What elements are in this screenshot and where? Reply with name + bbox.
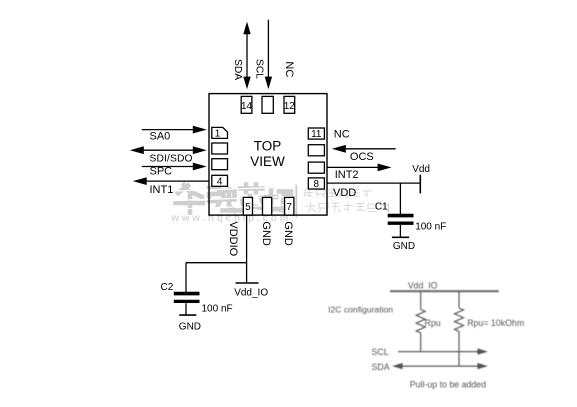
svg-text:OCS: OCS xyxy=(350,151,374,163)
U1 pin 13 (box) xyxy=(262,96,273,113)
svg-text:I2C configuration: I2C configuration xyxy=(328,305,393,315)
svg-text:SDI/SDO: SDI/SDO xyxy=(150,154,193,165)
svg-text:100 nF: 100 nF xyxy=(415,222,446,233)
wire OCS (arrow into pin 10) xyxy=(332,145,396,153)
svg-text:7: 7 xyxy=(286,202,292,213)
U1 pin 2 (box) xyxy=(212,143,228,154)
svg-text:GND: GND xyxy=(393,241,415,252)
svg-text:8: 8 xyxy=(314,179,320,190)
svg-text:100 nF: 100 nF xyxy=(202,304,233,315)
svg-text:VDD: VDD xyxy=(333,187,356,199)
net label Vdd_IO xyxy=(234,287,268,298)
net label VDD xyxy=(333,187,356,199)
svg-text:GND: GND xyxy=(282,221,294,246)
U1 pin 5 (box + number) xyxy=(243,197,252,215)
net label SCL xyxy=(254,59,265,79)
svg-text:SDA: SDA xyxy=(372,362,390,372)
C1 reference label xyxy=(375,201,388,212)
U1 pin 1 (box with chamfer + number) xyxy=(212,127,228,139)
wire SCL (arrow into pin 13) xyxy=(265,20,272,90)
C2 reference label xyxy=(161,282,174,293)
ground (C2) xyxy=(179,315,201,333)
svg-text:14: 14 xyxy=(241,101,253,112)
wire SA0 (arrow into pin 1) xyxy=(142,126,207,134)
net label Vdd xyxy=(412,164,430,175)
svg-text:SPC: SPC xyxy=(150,166,173,178)
svg-text:TOP: TOP xyxy=(254,139,282,154)
net label GND (pin 6, rotated) xyxy=(260,221,272,246)
U1 label TOP VIEW xyxy=(250,139,285,169)
svg-text:INT2: INT2 xyxy=(335,169,359,181)
svg-text:Vdd_IO: Vdd_IO xyxy=(234,287,268,298)
svg-text:Rpu: Rpu xyxy=(425,318,441,328)
net label NC (pin 12) xyxy=(283,61,295,77)
svg-text:SA0: SA0 xyxy=(150,131,171,143)
svg-text:INT1: INT1 xyxy=(150,184,174,196)
net label SDI/SDO xyxy=(150,154,193,165)
U1 pin 12 (box + number) xyxy=(284,96,296,113)
U1 pin 6 (box) xyxy=(263,197,272,215)
net label INT2 xyxy=(335,169,359,181)
svg-text:VDDIO: VDDIO xyxy=(227,221,239,256)
svg-text:4: 4 xyxy=(217,176,223,187)
net label OCS xyxy=(350,151,374,163)
U1 pin 3 (box) xyxy=(212,159,228,170)
wire C2 branch (horizontal + vertical) xyxy=(186,263,247,292)
U1 pin 4 (box + number) xyxy=(212,175,228,187)
svg-text:1: 1 xyxy=(215,129,221,140)
svg-text:Pull-up to be added: Pull-up to be added xyxy=(410,379,486,389)
U1 pin 8 (box + number) xyxy=(308,178,324,190)
wire INT2 (arrow out of pin 9) xyxy=(327,164,392,172)
svg-text:SCL: SCL xyxy=(254,59,265,79)
ground (C1) xyxy=(392,237,415,252)
wire SCL (arrow right) xyxy=(398,351,478,353)
svg-text:NC: NC xyxy=(334,128,350,140)
svg-text:GND: GND xyxy=(260,221,272,246)
svg-text:C1: C1 xyxy=(375,201,388,212)
svg-text:SDA: SDA xyxy=(232,59,243,80)
Vdd supply terminal xyxy=(419,175,421,194)
U1 pin 7 (box + number) xyxy=(285,197,294,215)
U1 pin 9 (box) xyxy=(308,162,324,173)
svg-text:Vdd_IO: Vdd_IO xyxy=(408,281,438,291)
wire SDA (double arrow) xyxy=(401,365,478,367)
wire SDI/SDO (bidirectional arrow, pin 2) xyxy=(130,146,207,154)
C2 value 100 nF xyxy=(202,304,233,315)
net label SPC xyxy=(150,166,173,178)
capacitor C1 xyxy=(388,216,414,237)
wire INT1 (arrow out of pin 4) xyxy=(133,177,209,185)
svg-text:Rpu= 10kOhm: Rpu= 10kOhm xyxy=(467,318,524,328)
wire SDA (bidirectional arrow into pin 14) xyxy=(243,22,250,90)
resistor Rpu (left) xyxy=(416,291,425,351)
net label SA0 xyxy=(150,131,171,143)
net label NC (pin 11) xyxy=(334,128,350,140)
wire VDDIO (pin 5 down to Vdd_IO terminal) xyxy=(246,215,248,283)
net label GND (pin 7, rotated) xyxy=(282,221,294,246)
Vdd_IO supply terminal xyxy=(236,282,259,284)
net label INT1 xyxy=(150,184,174,196)
wire Vdd_IO rail xyxy=(390,290,499,292)
U1 pin 10 (box) xyxy=(308,145,324,156)
capacitor C2 xyxy=(174,294,200,315)
IC U1 outline (TOP VIEW package) xyxy=(209,94,327,216)
svg-text:12: 12 xyxy=(284,101,296,112)
U1 pin 14 (box + number) xyxy=(241,96,253,113)
wire SPC (arrow into pin 3) xyxy=(142,163,207,171)
U1 pin 11 (box + number) xyxy=(308,128,324,140)
svg-text:NC: NC xyxy=(283,61,295,77)
resistor Rpu (right) xyxy=(455,291,464,366)
svg-text:11: 11 xyxy=(311,129,322,140)
wire VDD (pin 8 to Vdd terminal) xyxy=(327,182,420,184)
C1 value 100 nF xyxy=(415,222,446,233)
svg-text:GND: GND xyxy=(179,322,201,333)
svg-text:SCL: SCL xyxy=(372,347,389,357)
svg-text:5: 5 xyxy=(245,202,251,213)
wire C1 branch xyxy=(399,183,401,214)
svg-text:C2: C2 xyxy=(161,282,174,293)
svg-text:Vdd: Vdd xyxy=(412,164,430,175)
net label SDA xyxy=(232,59,243,80)
net label VDDIO (rotated) xyxy=(227,221,239,256)
svg-text:VIEW: VIEW xyxy=(250,154,285,169)
I2C pull-up subcircuit (gray inset) xyxy=(328,281,524,390)
